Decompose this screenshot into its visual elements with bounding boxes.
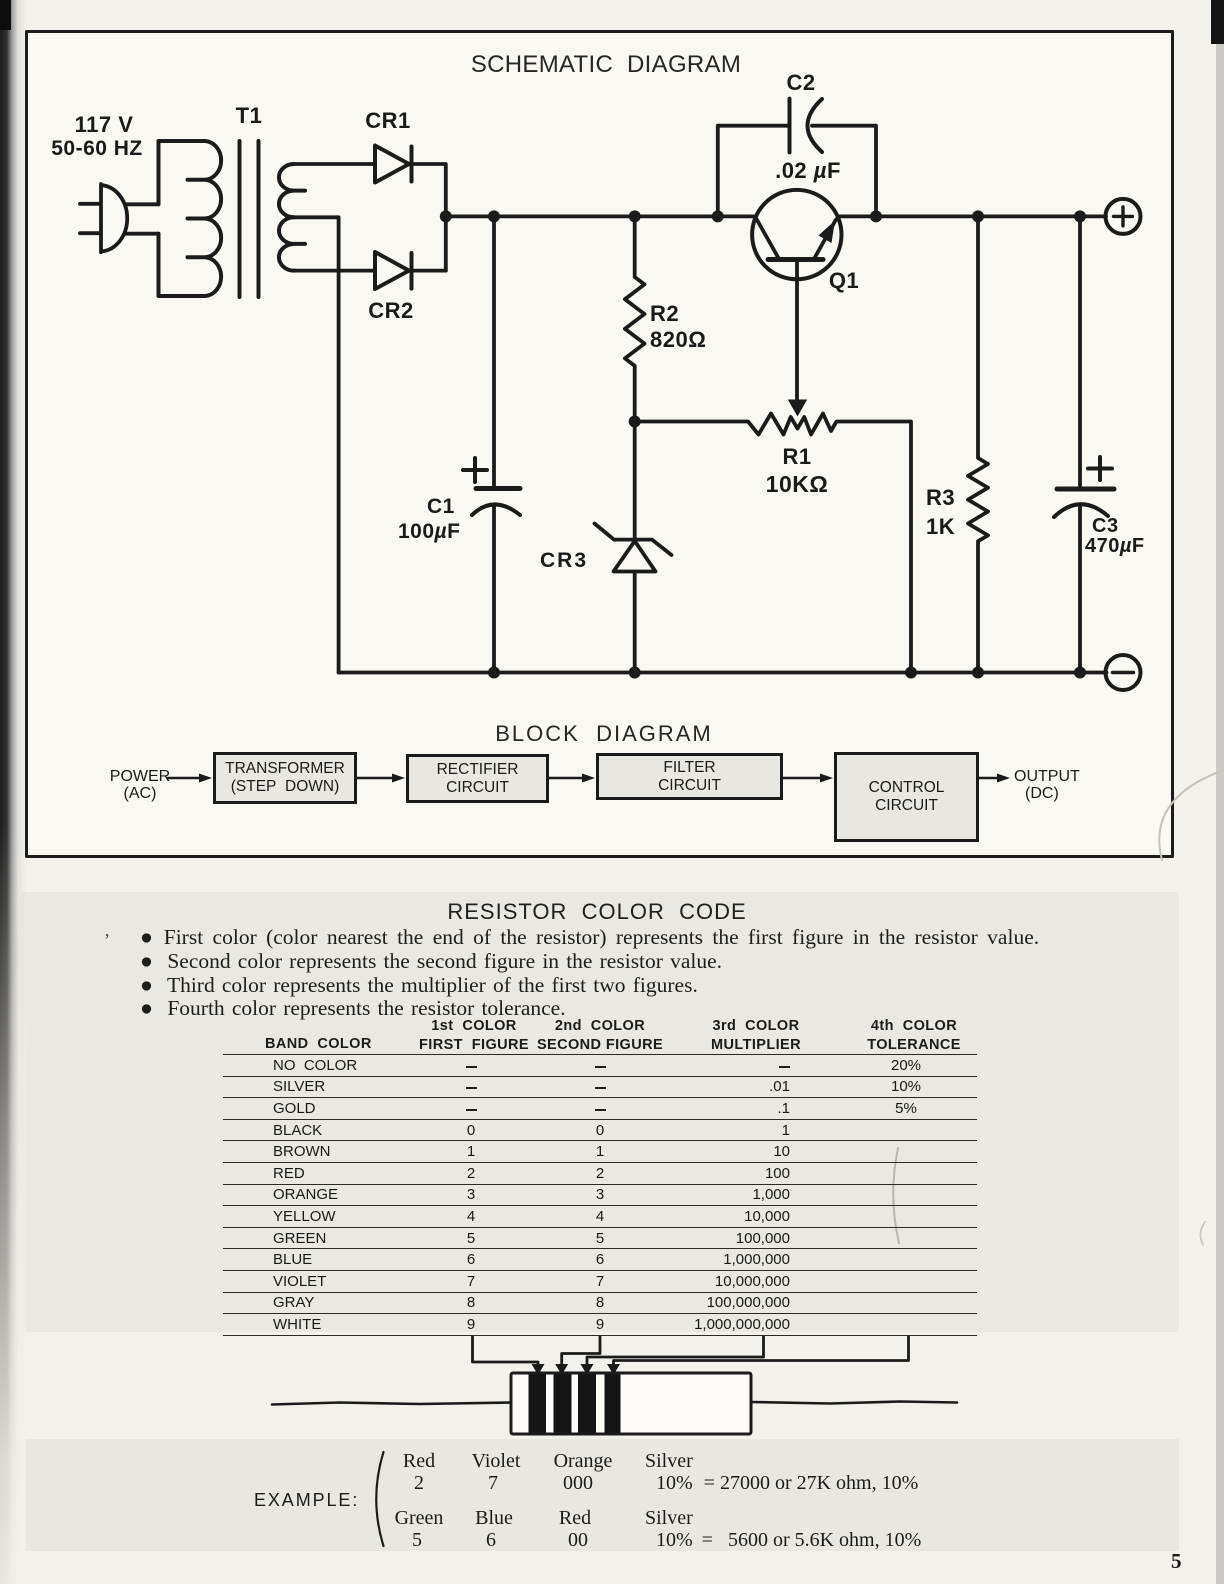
- wire bottom rail: [339, 671, 1107, 675]
- bracket 1st figure to band 1: [473, 1337, 539, 1366]
- label power ac: [110, 768, 170, 802]
- outer frame box: [27, 32, 1173, 857]
- bracket 2nd figure to band 2: [562, 1337, 600, 1366]
- capacitor C1: [476, 486, 520, 491]
- block arrow transformer to rectifier: [357, 777, 392, 780]
- wire secondary top to CR1: [294, 162, 375, 166]
- diode CR2: [375, 252, 412, 289]
- transformer T1 core: [240, 141, 259, 297]
- block arrow rectifier to filter: [549, 777, 582, 780]
- left book spine shadow: [0, 0, 26, 1584]
- color band 1: [529, 1375, 547, 1433]
- example label: [254, 1490, 359, 1511]
- wire plug to primary: [126, 204, 159, 233]
- label C2: [786, 70, 815, 96]
- wire CR2 cathode to node A: [412, 269, 446, 273]
- node C2 right junction dot: [870, 210, 882, 222]
- diode CR1: [375, 146, 412, 183]
- node C3 bottom junction dot: [1074, 667, 1086, 679]
- wire center tap down: [294, 217, 339, 672]
- label CR1: [365, 108, 411, 134]
- zener diode CR3: [595, 422, 672, 673]
- example row 2 values: [412, 1529, 422, 1552]
- faint pencil arc bottom right: [1159, 770, 1224, 860]
- node R2 top junction dot: [629, 210, 641, 222]
- node R1 left junction dot: [629, 416, 641, 428]
- wire C2 left branch: [718, 126, 790, 217]
- title resistor color code: [447, 899, 746, 925]
- faint pencil mark right: [1200, 1222, 1205, 1245]
- node A junction dot: [440, 210, 452, 222]
- color band 2: [554, 1375, 572, 1433]
- color band 3: [578, 1375, 596, 1433]
- example row 2 colors: [395, 1507, 444, 1530]
- title schematic diagram: [471, 51, 741, 79]
- block transformer step down: [213, 752, 357, 804]
- transistor Q1: [752, 190, 841, 279]
- output plus terminal: [1106, 199, 1141, 234]
- label R1 value: [782, 444, 811, 470]
- color band 4: [605, 1375, 621, 1433]
- AC plug P1: [80, 184, 127, 252]
- wire top rail: [446, 214, 1106, 218]
- stray apostrophe mark: [104, 930, 110, 951]
- node C2 left junction dot: [712, 210, 724, 222]
- table column headers: [265, 1036, 372, 1052]
- C3 plus sign: [1088, 457, 1112, 480]
- block arrow filter to control: [783, 777, 820, 780]
- faint pencil mark mid table: [893, 1148, 899, 1243]
- wire C2 right branch: [812, 126, 876, 217]
- top scan corner marks: [1211, 0, 1224, 44]
- label R3: [926, 483, 955, 541]
- capacitor C2: [788, 99, 792, 153]
- example brace: [376, 1452, 383, 1546]
- label 117V source: [75, 112, 134, 138]
- example resistor left lead: [272, 1403, 511, 1405]
- page number: [1171, 1549, 1182, 1574]
- label R2: [650, 301, 706, 353]
- label .02uF: [775, 158, 841, 184]
- label CR3: [540, 549, 588, 573]
- example gray band: [18, 1439, 1179, 1551]
- node CR3 bottom junction dot: [629, 667, 641, 679]
- node R3 bottom junction dot: [972, 667, 984, 679]
- node C1 bottom junction dot: [488, 667, 500, 679]
- label C3: [1092, 515, 1119, 538]
- example resistor body: [511, 1373, 751, 1434]
- node R1 bottom junction dot: [905, 667, 917, 679]
- bracket multiplier to band 3: [587, 1337, 764, 1366]
- wire C1 branch lower: [492, 505, 496, 673]
- label C1: [427, 495, 455, 519]
- transformer T1 secondary winding: [279, 164, 305, 271]
- R1 wiper arrow from Q1 base: [795, 262, 799, 400]
- block arrow control to output: [979, 777, 997, 780]
- block arrow power to transformer: [168, 777, 199, 780]
- label T1: [236, 103, 263, 129]
- resistor color code table: [223, 1054, 977, 1336]
- potentiometer R1: [635, 414, 911, 673]
- node C3 top junction dot: [1074, 210, 1086, 222]
- wire C1 branch upper: [492, 216, 496, 488]
- bracket tolerance to band 4: [614, 1337, 909, 1366]
- example resistor right lead: [751, 1402, 957, 1404]
- label CR2: [368, 298, 414, 324]
- wire secondary bottom to CR2: [294, 269, 375, 273]
- C1 plus sign: [463, 458, 487, 482]
- block rectifier circuit: [406, 754, 549, 803]
- label output dc: [1014, 768, 1080, 802]
- node C1 top junction dot: [488, 210, 500, 222]
- bullet list: [140, 926, 1039, 1021]
- resistor R2: [625, 216, 645, 421]
- label Q1: [829, 268, 859, 294]
- transformer T1 primary winding: [159, 141, 222, 296]
- example row 1 colors: [403, 1450, 435, 1473]
- capacitor C3: [1078, 216, 1082, 489]
- node R3 top junction dot: [972, 210, 984, 222]
- wire CR1 cathode to node A: [412, 164, 446, 271]
- resistor R3: [968, 216, 988, 672]
- block filter circuit: [596, 753, 783, 800]
- block control circuit: [834, 752, 979, 842]
- resistor color code gray panel: [22, 892, 1179, 1332]
- example row 1 values: [414, 1472, 424, 1495]
- title block diagram: [495, 721, 712, 747]
- frame interior background: [25, 30, 1174, 858]
- right page edge strip: [1216, 0, 1224, 1584]
- output minus terminal: [1106, 655, 1141, 690]
